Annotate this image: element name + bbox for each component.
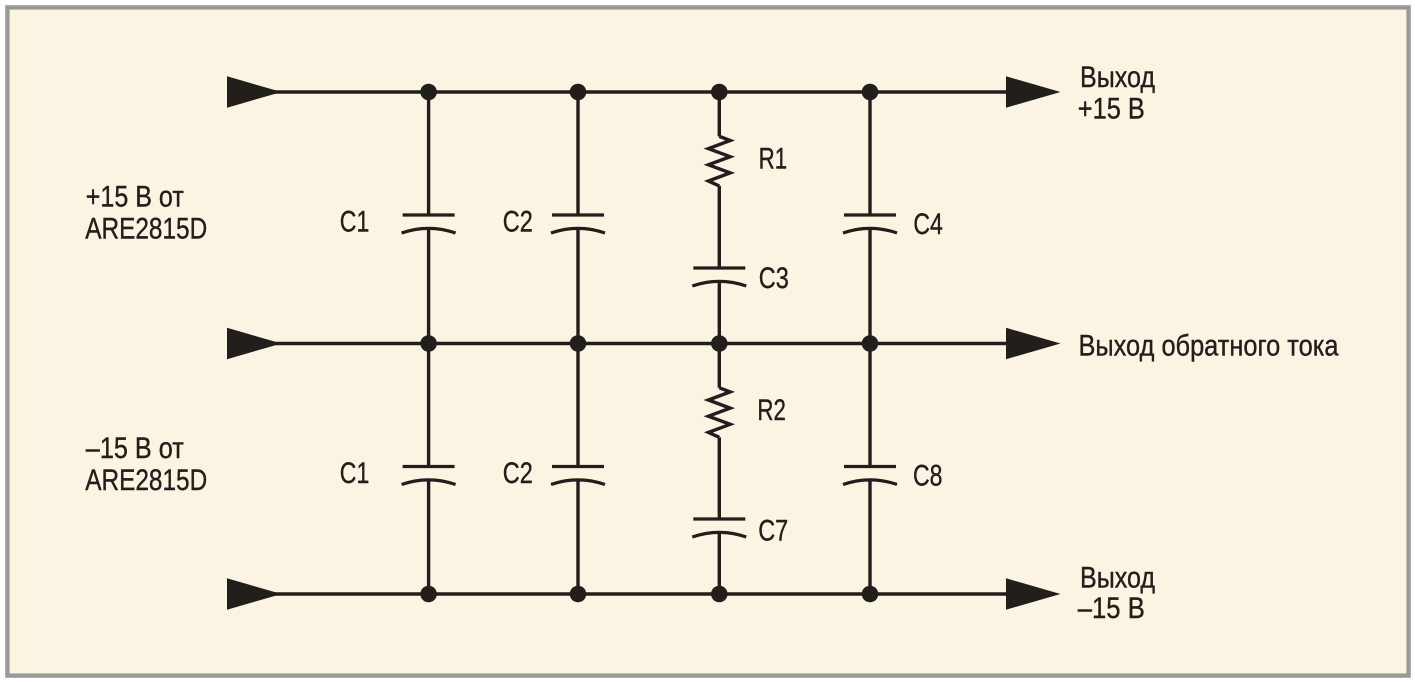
svg-text:Выход обратного тока: Выход обратного тока [1079, 329, 1339, 362]
svg-text:C1: C1 [340, 206, 370, 239]
svg-text:C7: C7 [758, 515, 788, 548]
svg-text:C4: C4 [913, 208, 943, 241]
svg-text:R2: R2 [757, 394, 786, 427]
svg-text:+15 В от: +15 В от [86, 181, 184, 214]
svg-text:C3: C3 [759, 262, 789, 295]
svg-text:ARE2815D: ARE2815D [85, 464, 207, 497]
svg-text:+15 В: +15 В [1078, 92, 1145, 125]
svg-text:C1: C1 [340, 457, 370, 490]
svg-text:C2: C2 [503, 457, 533, 490]
svg-text:R1: R1 [759, 143, 788, 176]
svg-text:Выход: Выход [1080, 562, 1155, 595]
svg-text:C2: C2 [503, 206, 533, 239]
svg-text:Выход: Выход [1080, 61, 1155, 94]
svg-text:–15 В: –15 В [1078, 592, 1145, 625]
svg-text:C8: C8 [913, 459, 943, 492]
svg-text:ARE2815D: ARE2815D [85, 213, 207, 246]
svg-text:–15 В от: –15 В от [86, 432, 184, 465]
